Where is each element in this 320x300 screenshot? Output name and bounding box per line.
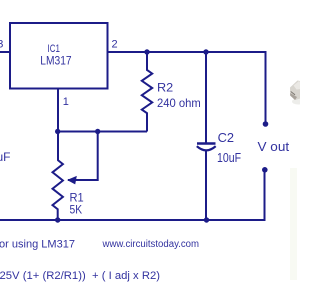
svg-text:LM317: LM317 bbox=[40, 54, 72, 68]
capacitor C2 bbox=[197, 52, 241, 220]
svg-text:or using LM317: or using LM317 bbox=[0, 238, 75, 250]
node junction adj-right bbox=[95, 129, 100, 134]
wire pin1 down bbox=[57, 89, 59, 161]
regulator IC1 LM317 bbox=[10, 23, 108, 89]
svg-text:5K: 5K bbox=[70, 202, 83, 216]
svg-text:240 ohm: 240 ohm bbox=[157, 96, 201, 110]
node Vout terminal top bbox=[263, 121, 269, 127]
node junction C2 bottom bbox=[204, 217, 209, 222]
node junction R1 bottom bbox=[55, 217, 60, 222]
svg-text:C2: C2 bbox=[218, 131, 234, 145]
svg-text:1: 1 bbox=[63, 96, 69, 108]
wire ground bottom rail bbox=[0, 171, 265, 221]
wire wiper feedback bbox=[68, 132, 98, 181]
svg-text:3: 3 bbox=[0, 39, 3, 51]
svg-text:www.circuitstoday.com: www.circuitstoday.com bbox=[102, 239, 199, 250]
page background strip right bbox=[290, 168, 297, 280]
svg-text:25V (1+ (R2/R1)) + ( I adj x: 25V (1+ (R2/R1)) + ( I adj x R2) bbox=[0, 270, 160, 282]
photo fragment right edge bbox=[290, 81, 304, 105]
wire R2 bottom to adj node bbox=[98, 131, 147, 133]
resistor R2 bbox=[142, 52, 201, 132]
wire adj node horizontal bbox=[58, 131, 98, 133]
node junction C2 top bbox=[203, 49, 208, 54]
node junction adj-left bbox=[55, 129, 60, 134]
svg-text:V out: V out bbox=[258, 140, 290, 154]
node Vout terminal bottom bbox=[262, 167, 268, 173]
svg-text:10uF: 10uF bbox=[217, 151, 241, 165]
svg-text:uF: uF bbox=[0, 150, 11, 164]
node junction R2 top bbox=[144, 49, 149, 54]
wire pin3 input bbox=[0, 51, 10, 53]
wiper arrowhead bbox=[67, 176, 77, 185]
wire pin2 to Vout top bbox=[108, 52, 266, 122]
resistor R1 potentiometer bbox=[53, 160, 84, 220]
svg-text:2: 2 bbox=[112, 38, 118, 50]
svg-text:R2: R2 bbox=[157, 80, 174, 94]
